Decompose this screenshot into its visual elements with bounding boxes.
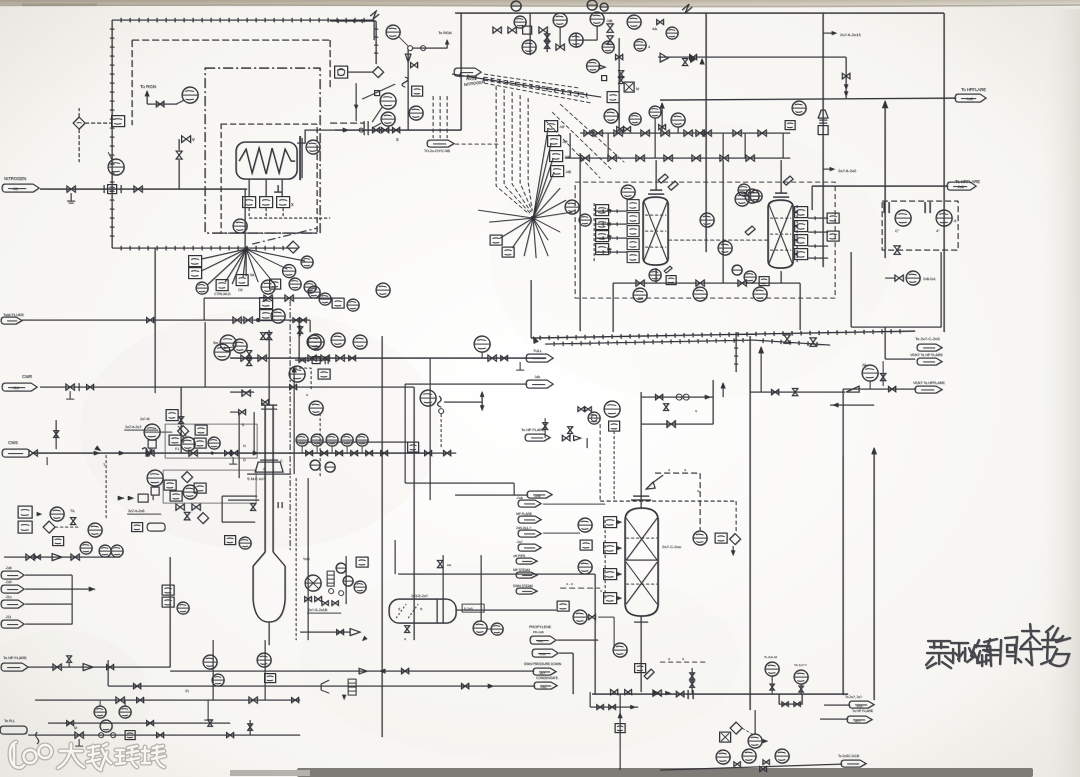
up arrow on transfer bbox=[758, 346, 764, 353]
RGN link small circles bbox=[408, 46, 413, 51]
branch double arrow bbox=[481, 392, 483, 410]
lbc vertical bbox=[345, 556, 347, 604]
link square to diamond bbox=[348, 71, 372, 73]
degasser cross top bbox=[626, 518, 657, 560]
degasser jacket dashes bbox=[604, 520, 606, 600]
bottom-left header bbox=[28, 734, 300, 736]
dashed cross header y501 bbox=[600, 500, 736, 502]
exchanger drain legs bbox=[248, 179, 250, 196]
TULL circles above bbox=[307, 335, 321, 349]
TULL drain bbox=[519, 362, 521, 370]
bl3 y723 valves bbox=[67, 720, 74, 725]
neck top flange bbox=[261, 404, 277, 406]
bc circle M bbox=[748, 734, 762, 748]
bl flare valve bbox=[53, 664, 61, 670]
mid flare valve bbox=[562, 435, 570, 441]
reactor R1 vessel bbox=[643, 197, 668, 265]
PI squares column bbox=[545, 121, 558, 132]
drum right nozzle bbox=[480, 555, 482, 621]
top valve row bbox=[493, 27, 501, 33]
dashed link to boundary bbox=[85, 122, 112, 124]
R2 level circle bbox=[745, 189, 759, 203]
cluster big circle bbox=[181, 437, 195, 451]
degasser feed circle small bbox=[588, 412, 600, 424]
branch vertical valve bbox=[682, 59, 687, 66]
M-2o circle valve bbox=[895, 275, 903, 281]
rs dashed riser bbox=[319, 413, 321, 478]
CWS header bbox=[33, 452, 430, 454]
condenser box drop bottom bbox=[851, 326, 941, 328]
square right bbox=[318, 369, 330, 379]
branch circle 2A bbox=[420, 390, 436, 406]
degasser cross bottom bbox=[626, 562, 657, 604]
rs circle bbox=[308, 334, 324, 350]
line from circle right bbox=[598, 616, 614, 618]
R2 slanted fittings above bbox=[745, 176, 793, 235]
drum internal diagonal dashes bbox=[396, 604, 418, 618]
lower valves bbox=[176, 504, 184, 510]
vent line to flare bbox=[843, 388, 916, 390]
vent circle stem bbox=[869, 381, 871, 389]
flag riser join bbox=[71, 575, 73, 624]
boundary diamond bbox=[373, 67, 384, 78]
signature char 3 (xi) bbox=[967, 640, 990, 666]
CWS drain stand bbox=[232, 457, 234, 464]
signature char 2 (bing) bbox=[951, 643, 968, 661]
bottom header right bbox=[592, 693, 848, 695]
bottom header arrow bbox=[665, 691, 671, 695]
transfer ticked line 2 bbox=[545, 338, 754, 346]
lbc hose rect bbox=[327, 571, 334, 586]
dashed instrument drop x106 bbox=[105, 455, 107, 520]
hub instrument square 5A bbox=[236, 275, 248, 286]
R1 level circle bbox=[621, 185, 635, 199]
degasser feed circles left bbox=[578, 518, 592, 532]
degasser bottom outlet bbox=[640, 616, 642, 692]
vent branch vertical bbox=[842, 389, 844, 455]
propylene flag lines bbox=[557, 639, 598, 641]
Sm instrument circle bbox=[214, 344, 230, 360]
cluster left-bottom squares bbox=[162, 585, 174, 595]
drum circles below bbox=[473, 621, 487, 635]
bc small square bbox=[615, 724, 625, 733]
center vertical long 1 bbox=[381, 336, 383, 737]
hub instrument square c bbox=[270, 279, 281, 289]
branch dark valve bbox=[690, 54, 697, 59]
CWS cluster square bbox=[408, 442, 419, 452]
transfer ticked line bbox=[531, 329, 915, 340]
rs row bbox=[295, 359, 330, 361]
feed flag -211 bbox=[1, 620, 24, 628]
cluster diamond A bbox=[178, 426, 189, 437]
exchanger TI circle bbox=[306, 140, 320, 154]
branch drop x846 bbox=[845, 57, 847, 98]
dashed instrument box mid-left bbox=[289, 368, 311, 390]
nitrogen strainer cluster bbox=[103, 185, 105, 193]
R2 jacket dashed riser bbox=[796, 205, 798, 262]
monomer circle 2L-2 bbox=[381, 112, 395, 126]
vent assembly circle bbox=[862, 365, 878, 381]
exchanger end plate bbox=[299, 136, 301, 180]
diamond interlock left bbox=[73, 117, 85, 129]
drum internal weir bbox=[436, 599, 438, 623]
cluster vertical valve pair bbox=[618, 71, 623, 78]
lbc square bbox=[356, 557, 368, 567]
degasser top flange bbox=[633, 495, 649, 497]
lbc valves bbox=[305, 596, 312, 601]
CWR mid valve bbox=[290, 384, 297, 389]
dash vertical x600 bbox=[599, 424, 601, 501]
condenser bottom valves bbox=[894, 246, 900, 254]
staircase lines below flask bbox=[222, 496, 259, 522]
R2 bottom instruments bbox=[744, 271, 756, 283]
bc diamond bbox=[730, 722, 742, 734]
center vertical 4 bbox=[307, 478, 309, 640]
lower angle valve bbox=[184, 512, 190, 520]
right side of column assembly bbox=[299, 325, 301, 336]
flare2 connector down bbox=[811, 186, 813, 210]
NA corner down bbox=[404, 384, 406, 483]
vent check valve bbox=[846, 386, 859, 392]
label 2o7-6-2o13 bbox=[823, 32, 835, 34]
riser x395 bbox=[394, 540, 396, 574]
bl2 valve M bbox=[75, 732, 83, 738]
R2 sample squares right bbox=[827, 213, 839, 223]
inter-reactor circles bbox=[700, 213, 714, 227]
sample vertical bbox=[355, 83, 357, 121]
top row2 bbox=[22, 319, 310, 321]
dashed feed diagonals into reactors bbox=[545, 104, 624, 178]
cluster square big bbox=[607, 92, 619, 103]
flag -2oB bbox=[527, 491, 552, 498]
flag -NA bbox=[526, 380, 553, 388]
bottom-right instrument group bbox=[716, 750, 730, 764]
long riser x595 bbox=[594, 574, 596, 694]
instrument circle pair near boundary bbox=[308, 286, 320, 298]
x-x circle bbox=[693, 531, 707, 545]
N break symbol bbox=[370, 11, 379, 19]
flask body bbox=[252, 566, 254, 600]
flask flare transition bbox=[253, 552, 285, 566]
diag arrow near CWS bbox=[94, 445, 101, 451]
hub instrument circle b bbox=[283, 265, 296, 278]
top line valves bbox=[264, 295, 272, 301]
x-x corner vertical bbox=[699, 473, 701, 530]
pump manifold upper line bbox=[296, 441, 414, 443]
CWS inline valve bbox=[29, 450, 37, 456]
nitrogen header valve 2 bbox=[134, 186, 142, 192]
signature char 1 (ju) bbox=[926, 641, 953, 668]
R1 jacket dashed riser bbox=[593, 203, 595, 262]
condenser box drop right bbox=[940, 252, 942, 327]
reactor R2 cross bbox=[769, 205, 792, 263]
top valve row right bbox=[539, 27, 547, 33]
vertical from TEMFLUDE to CWR bbox=[204, 322, 206, 387]
cluster bowtie row2 bbox=[556, 44, 564, 50]
inter-reactor circle pair bbox=[738, 184, 750, 196]
far bottom line bbox=[660, 764, 842, 770]
horizontal drum vessel bbox=[389, 599, 456, 623]
R2 jacket module squares bbox=[795, 207, 808, 218]
FV label box bbox=[462, 604, 484, 612]
bypass loop bbox=[779, 694, 802, 704]
cross header valves bbox=[771, 389, 778, 394]
x-x drop arrow bbox=[732, 546, 734, 554]
lb cluster circles bbox=[203, 655, 217, 669]
bottom header bars bbox=[688, 690, 693, 699]
distribution hub node bbox=[244, 247, 248, 251]
hose arrow bbox=[37, 512, 42, 516]
flask outlet bbox=[268, 622, 270, 645]
hub instrument circle c bbox=[301, 256, 313, 268]
manifold row2 valves bbox=[581, 155, 589, 161]
angle valve vertical bbox=[176, 151, 182, 159]
flask collar A bbox=[255, 462, 283, 472]
x-x diamond bbox=[730, 534, 741, 545]
bottom header valves bbox=[636, 280, 644, 286]
degasser jacket squares bbox=[604, 517, 617, 528]
cluster circle low2 bbox=[629, 113, 641, 125]
vent arrow up bbox=[146, 92, 148, 104]
cluster circle right bbox=[208, 437, 220, 449]
long vertical x580 bbox=[579, 153, 581, 331]
rs dash-dot to right bbox=[289, 300, 291, 550]
hose circle bbox=[50, 507, 64, 521]
hose vvalve bbox=[70, 518, 75, 525]
top scan edge strip bbox=[0, 0, 1080, 7]
dashed drop from diamond bbox=[78, 129, 80, 162]
drain instrument squares bbox=[243, 197, 256, 208]
neck mid flange C bbox=[260, 459, 278, 461]
riser arrow up x662 bbox=[660, 102, 665, 108]
loop right vertical bbox=[712, 380, 714, 424]
interconnect R1-R2 bbox=[668, 239, 768, 241]
vent instrument circle bbox=[409, 106, 423, 120]
feed flag -2o8 bbox=[1, 571, 24, 579]
flag -2oB line bbox=[455, 494, 528, 496]
lb line valves bbox=[116, 697, 124, 703]
cluster enclosure lower bbox=[163, 470, 256, 503]
mid flare hook bbox=[586, 438, 588, 448]
R1 bottom instruments bbox=[649, 269, 661, 281]
funnel on stub bbox=[646, 482, 655, 489]
branch small circle bbox=[439, 409, 444, 414]
CWS arrow to column bbox=[253, 451, 259, 456]
interlock square with circle bbox=[335, 66, 348, 78]
reactor bottom header bbox=[613, 282, 800, 284]
br riser bbox=[754, 710, 756, 734]
flare header line 1 bbox=[660, 98, 956, 100]
feeder circles left pair bbox=[220, 335, 236, 351]
CWR riser mid bbox=[154, 387, 156, 393]
vent line bbox=[147, 103, 177, 105]
cluster valve on riser bbox=[615, 54, 622, 59]
valve stem line to nitrogen header bbox=[178, 160, 180, 189]
long vertical to bottom right bbox=[749, 336, 751, 710]
reactor R1 cross bbox=[644, 202, 667, 260]
cluster link lines bbox=[160, 426, 195, 443]
funnel below drum bbox=[350, 629, 360, 636]
mid-left instrument cluster upper bbox=[144, 424, 160, 440]
monomer arrow bbox=[343, 128, 349, 133]
instrument circle 2AC bbox=[182, 87, 198, 103]
tiny square bbox=[602, 76, 607, 81]
vent drop to flag2 bbox=[884, 327, 886, 359]
bottom header dark valve bbox=[653, 690, 661, 696]
far bottom valve bbox=[760, 766, 767, 771]
lb bottom line bbox=[35, 699, 300, 701]
corner riser from cluster bbox=[298, 320, 300, 358]
bl valve2 bbox=[107, 664, 114, 669]
CWR drain tee bbox=[69, 391, 71, 399]
instrument circle right header bbox=[792, 101, 806, 115]
dashed boundary 2 bbox=[132, 39, 330, 41]
left arrow line bbox=[830, 404, 874, 406]
drum nozzle valve bbox=[437, 560, 442, 567]
staircase bars bbox=[278, 502, 282, 508]
flare bottom-left header bbox=[28, 666, 170, 668]
cluster vertical x619 bbox=[618, 38, 620, 131]
hub instrument square b bbox=[216, 280, 228, 291]
reactor D-201A dashed jacket boundary bbox=[575, 182, 835, 298]
loop vertical valve bbox=[663, 404, 668, 411]
dashed signal bundle from high nitrogen bbox=[484, 74, 580, 88]
bl2 small circles bbox=[99, 733, 104, 738]
signal bundle drop to hub bbox=[496, 86, 529, 214]
cluster bottom valves bbox=[617, 126, 624, 131]
lb drain bbox=[207, 700, 209, 720]
label 2o7-6-2o2 bbox=[823, 168, 833, 170]
instrument circle above CWS bbox=[289, 366, 305, 382]
TULL flag bbox=[526, 354, 553, 362]
degasser inlet lines bbox=[543, 503, 605, 505]
lbc tiny circles bbox=[329, 589, 334, 594]
branch dashes down bbox=[440, 414, 442, 447]
NA line left bbox=[405, 383, 527, 385]
CWS node dot bbox=[211, 452, 214, 455]
center vertical long 2 bbox=[429, 358, 431, 500]
lbc circle right bbox=[354, 581, 366, 593]
riser valve bbox=[659, 124, 666, 129]
blowdown line y671 bbox=[170, 670, 534, 672]
instrument circle 2oP-L bbox=[386, 25, 400, 39]
cluster square with cross bbox=[624, 82, 634, 92]
vent funnel bbox=[405, 54, 411, 62]
loop arrow bbox=[705, 395, 711, 400]
lb risers bbox=[212, 640, 214, 700]
condenser tube symbol 1 bbox=[884, 202, 889, 213]
feeder vertical valves bbox=[246, 351, 251, 358]
staircase valve bbox=[250, 504, 255, 511]
signal hub 2 node bbox=[531, 216, 536, 221]
hose station squares left bbox=[18, 506, 32, 518]
top instrument circles cluster bbox=[514, 16, 526, 28]
CWS arrows bbox=[94, 451, 100, 456]
bl2 square bbox=[125, 731, 135, 740]
drain dashed collector bbox=[248, 208, 250, 218]
cluster enclosure upper bbox=[165, 424, 257, 458]
top process box outline bbox=[455, 12, 944, 14]
diamond on boundary line bbox=[287, 241, 299, 253]
line down to distribution hub bbox=[244, 189, 246, 248]
watermark logo and text bottom-left bbox=[10, 742, 165, 770]
lower square+capsule bbox=[132, 523, 143, 532]
flask bottom dome bbox=[253, 600, 285, 622]
vertical header leg left bbox=[154, 248, 156, 387]
valve M-v bbox=[182, 136, 191, 143]
hose circles right bbox=[88, 523, 102, 537]
drum level instruments bbox=[456, 609, 556, 611]
polymer line top bbox=[204, 297, 340, 299]
bl2 riser bbox=[249, 720, 251, 735]
hose diamond bbox=[43, 521, 55, 533]
vent inline valve bbox=[888, 386, 895, 391]
blowdown items bbox=[359, 668, 367, 674]
branch riser arrow to top bbox=[700, 58, 705, 64]
TULL header valves bbox=[308, 355, 316, 361]
bl3 stems bbox=[99, 700, 101, 706]
condenser tube symbol 2 bbox=[925, 202, 930, 213]
condenser box drop left bbox=[850, 252, 852, 327]
drum nozzle top bbox=[442, 555, 444, 599]
instrument circle pair mid bbox=[289, 278, 301, 290]
stub bowtie bbox=[262, 399, 269, 404]
stacked squares left bbox=[260, 298, 273, 309]
flag line arrow bbox=[89, 587, 95, 592]
degasser feed square bbox=[609, 421, 620, 431]
CWR branch valve bbox=[178, 417, 183, 424]
reactor R2 top flange bbox=[775, 192, 787, 194]
bl2 more valves bbox=[157, 732, 164, 737]
reactor R2 vessel bbox=[768, 200, 793, 268]
flag feed lines bbox=[824, 704, 850, 706]
ticked vertical drop x736 bbox=[734, 332, 738, 372]
feed flag -21o bbox=[1, 600, 24, 608]
4-MB circle bbox=[376, 283, 390, 297]
drain line y632 bbox=[300, 631, 350, 633]
drop valve bbox=[842, 73, 850, 79]
HIGH NITROGEN flag bbox=[454, 68, 481, 76]
PSV circles bottom bbox=[765, 662, 779, 676]
cluster circle row2 bbox=[522, 40, 536, 54]
flask base line bbox=[247, 473, 291, 475]
lower diamond bbox=[182, 472, 193, 483]
signal dash from flag bbox=[455, 143, 500, 145]
loop column neck bbox=[264, 405, 266, 552]
utility valves bbox=[26, 554, 34, 560]
R1 jacket module squares inner bbox=[627, 200, 639, 211]
CWR branch down bbox=[180, 387, 182, 453]
hub ray fan to instruments bbox=[201, 249, 305, 285]
degasser internals bbox=[626, 537, 657, 539]
flask bottom left squares bbox=[225, 536, 236, 545]
dash boundary2 bottom bbox=[330, 122, 364, 124]
ticked monomer feed diagonal bbox=[452, 73, 601, 97]
branch line y402 bbox=[444, 401, 482, 403]
side box valves bbox=[242, 390, 250, 396]
left angle valve x570 bbox=[567, 427, 572, 434]
dash vertical x614 bbox=[613, 431, 615, 501]
diagonal dash-dot from hub to enclosure corner bbox=[252, 228, 317, 244]
vertical header mid bbox=[822, 13, 824, 267]
x-x square right bbox=[715, 533, 727, 543]
drain tee below valve bbox=[70, 193, 72, 201]
signature char 7 (ming) bbox=[1041, 626, 1070, 666]
bc dashes bbox=[742, 728, 752, 734]
hub instrument squares left pair bbox=[189, 256, 202, 267]
bl2 circle top bbox=[100, 720, 112, 732]
vertical riser x170 bbox=[169, 557, 171, 667]
